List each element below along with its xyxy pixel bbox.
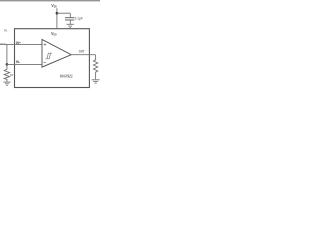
svg-text:VDD: VDD xyxy=(51,31,57,37)
svg-text:R1: R1 xyxy=(4,29,8,33)
svg-text:MAX921: MAX921 xyxy=(60,74,73,79)
svg-text:VDD: VDD xyxy=(51,3,56,9)
svg-text:IN+: IN+ xyxy=(16,41,21,45)
svg-text:OUT: OUT xyxy=(79,49,85,53)
svg-text:IN-: IN- xyxy=(16,60,20,64)
svg-text:0.1μF: 0.1μF xyxy=(75,16,84,20)
svg-text:REF: REF xyxy=(0,42,6,46)
svg-text:R2: R2 xyxy=(10,73,14,77)
